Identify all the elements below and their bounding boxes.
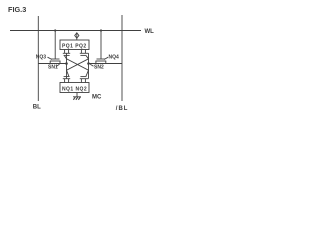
transistor NQ4 (access) <box>96 59 107 64</box>
junction on WL at NQ3 gate <box>54 29 56 31</box>
junction node SN1 <box>65 62 68 65</box>
svg-text:NQ1 NQ2: NQ1 NQ2 <box>62 87 87 93</box>
junction on WL at NQ4 gate <box>100 29 102 31</box>
transistor PQ2 <box>80 50 89 56</box>
svg-text:PQ1 PQ2: PQ1 PQ2 <box>62 43 87 49</box>
svg-text:/BL: /BL <box>116 106 129 112</box>
box NQ1 NQ2 (NMOS driver pair) <box>60 83 89 93</box>
svg-text:SN2: SN2 <box>94 65 104 71</box>
word line WL <box>10 30 141 32</box>
leader NQ4 <box>104 57 108 59</box>
svg-text:WL: WL <box>145 29 155 35</box>
power supply arrow VDD <box>75 33 79 40</box>
transistor NQ2 <box>80 77 89 83</box>
inverter output column SN1 <box>66 53 68 78</box>
transistor PQ1 <box>63 50 70 56</box>
wire gate of NQ3 to WL <box>54 31 56 60</box>
svg-text:NQ4: NQ4 <box>109 55 120 61</box>
ground <box>73 93 81 100</box>
leader SN2 <box>90 64 93 66</box>
svg-text:NQ3: NQ3 <box>36 55 47 61</box>
transistor NQ1 <box>63 77 70 83</box>
wire SN2 to /BL <box>89 63 123 65</box>
svg-text:MC: MC <box>92 95 102 101</box>
svg-text:FIG.3: FIG.3 <box>8 5 26 14</box>
junction node SN2 <box>87 62 90 65</box>
wire BL to SN1 <box>38 63 66 65</box>
svg-text:SN1: SN1 <box>48 65 58 71</box>
leader SN1 <box>56 64 60 66</box>
transistor NQ3 (access) <box>50 59 61 64</box>
cross-couple wire A <box>65 56 89 76</box>
inverter output column SN2 <box>88 53 90 78</box>
svg-text:BL: BL <box>33 104 41 110</box>
leader NQ3 <box>48 57 53 59</box>
box PQ1 PQ2 (PMOS load pair) <box>60 40 89 50</box>
cross-couple wire B <box>67 56 89 76</box>
bit line BL <box>37 16 39 101</box>
wire gate of NQ4 to WL <box>100 31 102 60</box>
bit line /BL <box>121 15 123 101</box>
